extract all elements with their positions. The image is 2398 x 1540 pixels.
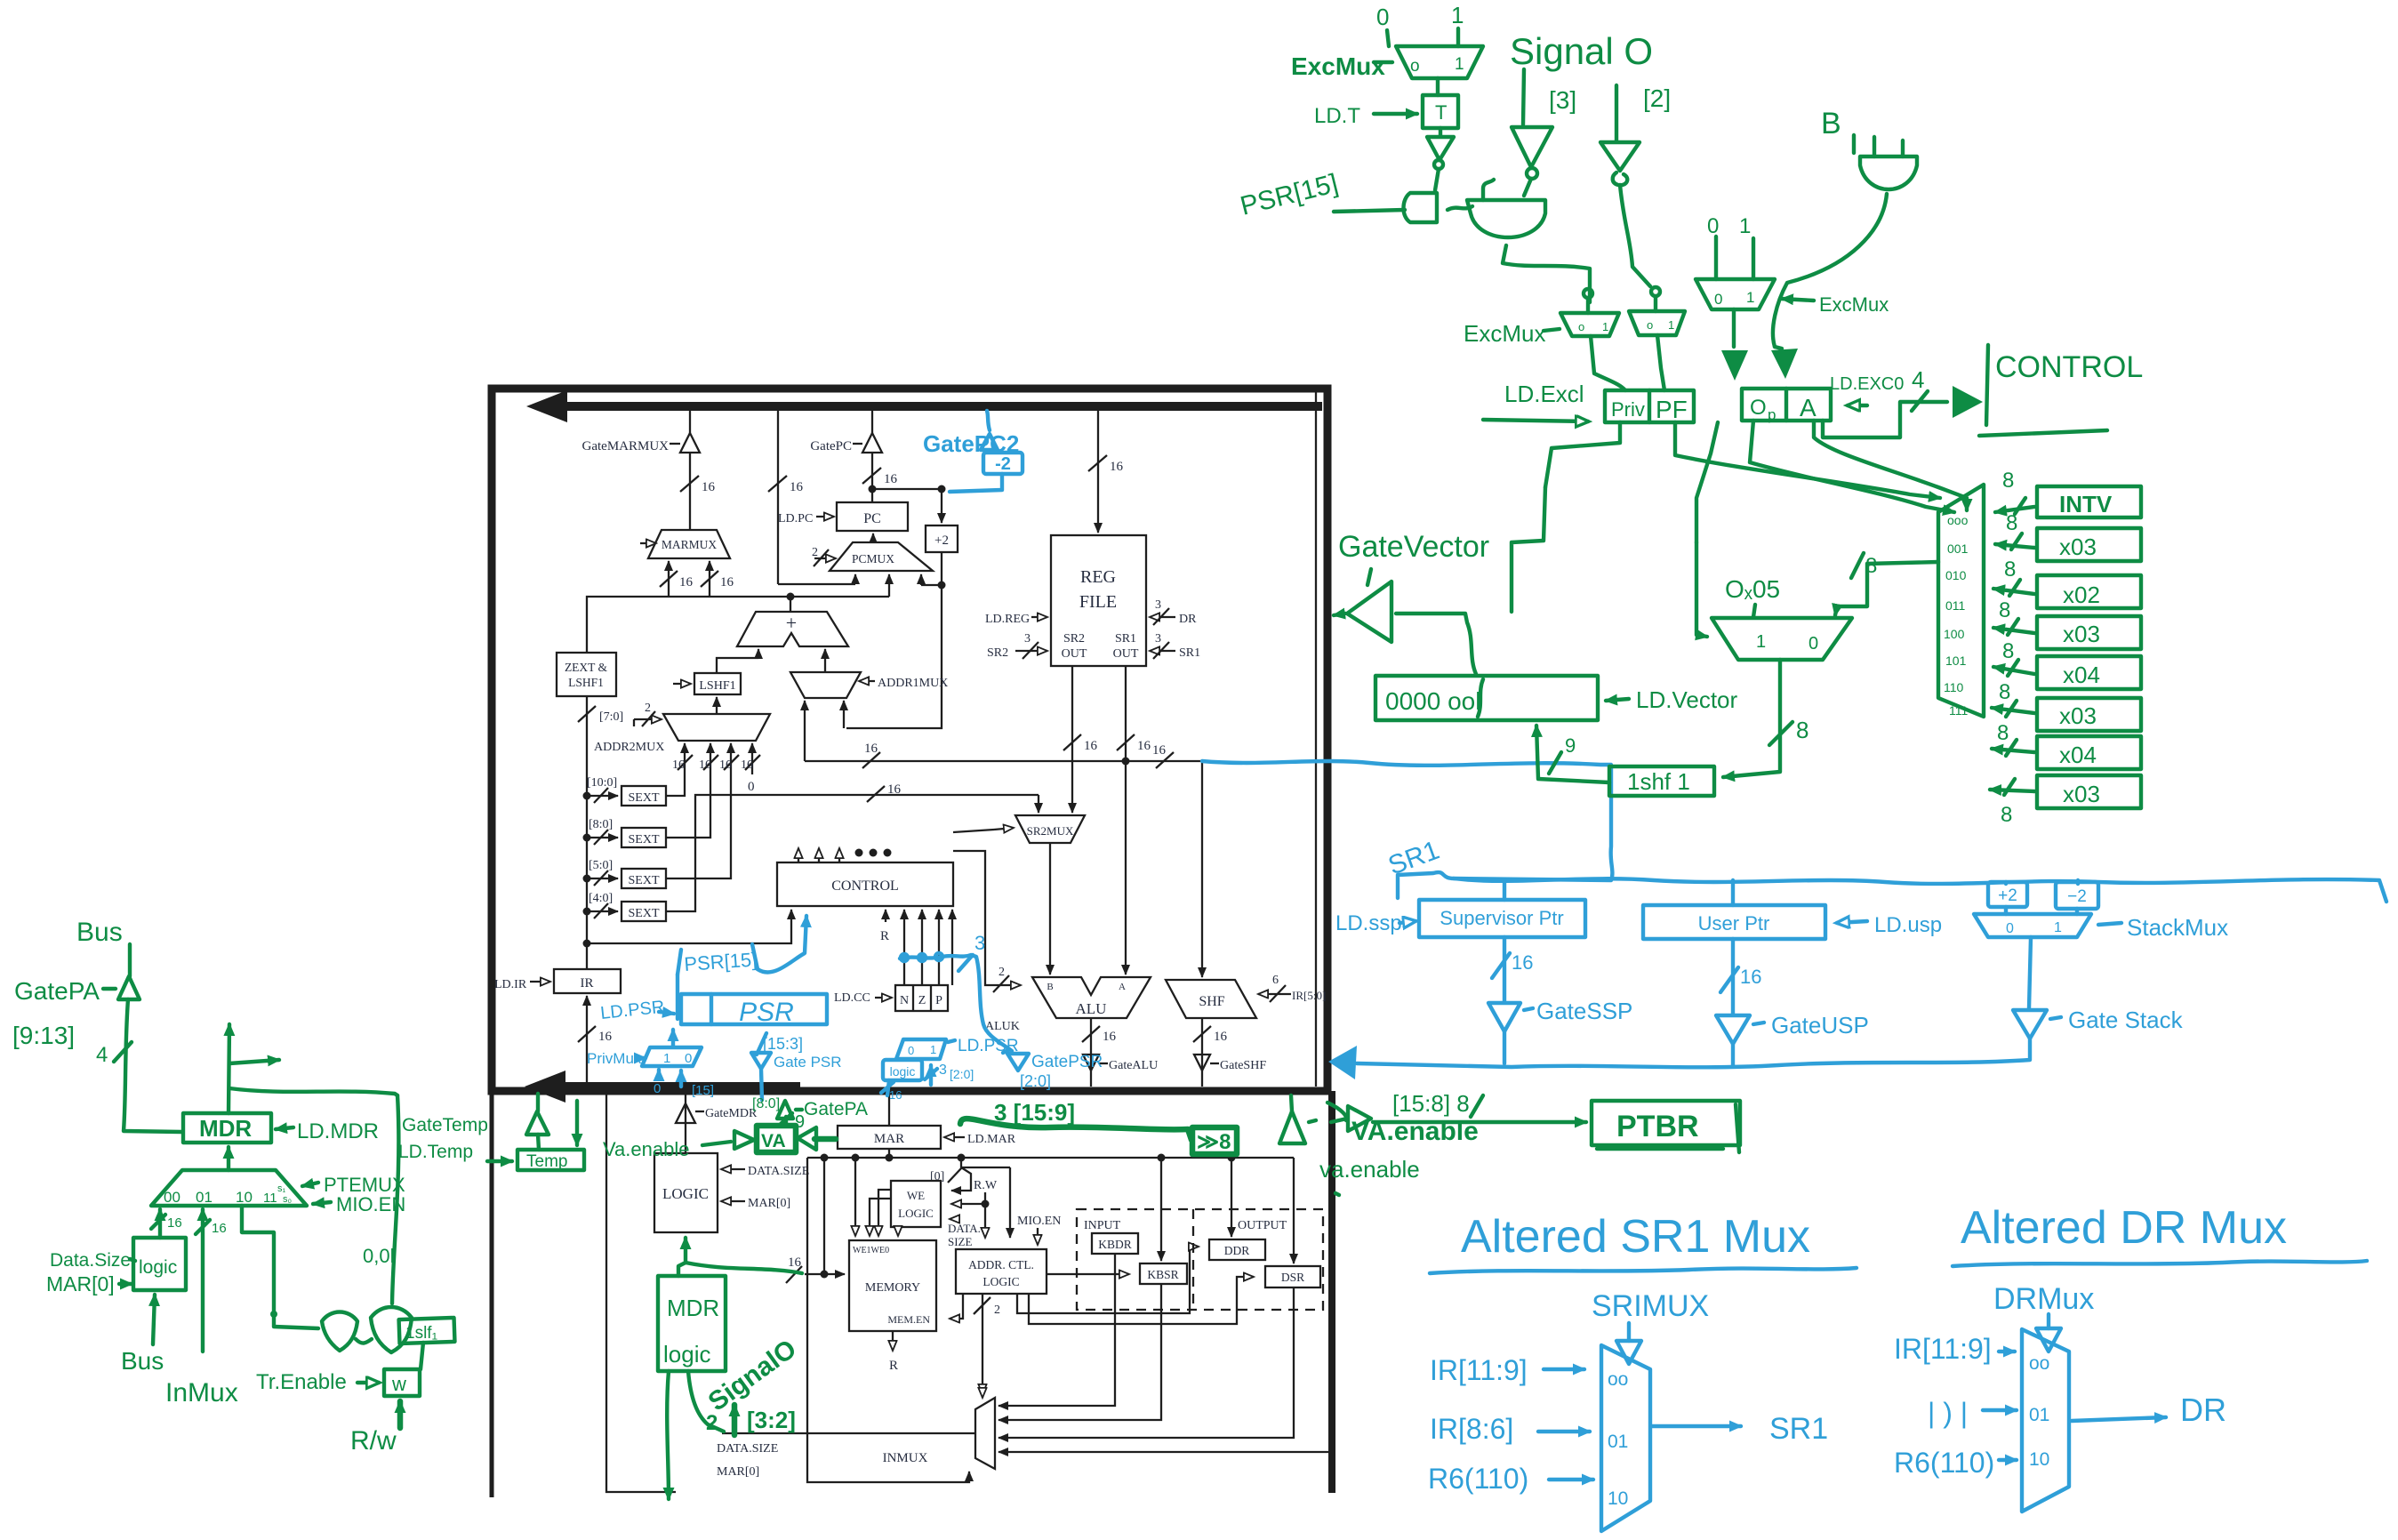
svg-text:6: 6 [1272, 974, 1279, 987]
wire MARMUX output up with 16 slash [689, 453, 691, 530]
svg-text:16: 16 [719, 758, 732, 772]
wire bus row to DSR [1293, 1158, 1295, 1263]
SHF [1166, 980, 1256, 1018]
INTV vector mux parallelogram [1938, 485, 1984, 717]
SHF right input 6 IR[5:0] [1258, 993, 1291, 995]
svg-text:LD.Vector: LD.Vector [1636, 686, 1738, 713]
svg-text:WE1WE0: WE1WE0 [853, 1246, 889, 1255]
wire +2 output to PCMUX and down to ADDR1MUX [941, 552, 942, 585]
svg-text:logic: logic [663, 1341, 710, 1368]
svg-text:0000 ool: 0000 ool [1385, 687, 1480, 715]
blue return bus to frame [1357, 1031, 2030, 1067]
svg-text:ExcMux: ExcMux [1464, 320, 1545, 347]
svg-text:LOGIC: LOGIC [662, 1185, 709, 1202]
svg-text:0: 0 [748, 780, 755, 794]
svg-text:WE: WE [907, 1189, 925, 1202]
svg-text:2: 2 [812, 546, 818, 559]
wire MDR up with branches [229, 1024, 229, 1113]
INPUT OUTPUT dashed boxes [1077, 1209, 1323, 1310]
svg-text:Data.Size: Data.Size [50, 1250, 131, 1271]
svg-text:3: 3 [939, 1063, 947, 1078]
wire -2 to PC junction [987, 411, 990, 430]
svg-text:GateUSP: GateUSP [1771, 1012, 1869, 1039]
svg-text:16: 16 [720, 575, 734, 590]
wire MAR output and row y1302 [888, 1149, 890, 1158]
LOGIC box [654, 1153, 718, 1232]
wire INMUX output left [722, 1432, 975, 1434]
wire KBDR to INMUX [998, 1254, 1115, 1406]
svg-text:Tr.Enable: Tr.Enable [256, 1370, 347, 1394]
svg-text:8: 8 [1865, 554, 1877, 578]
svg-text:CONTROL: CONTROL [831, 878, 899, 894]
svg-text:SIZE: SIZE [948, 1235, 973, 1248]
svg-text:MAR: MAR [874, 1132, 904, 1146]
>>8 box [1192, 1127, 1237, 1154]
svg-text:SR2: SR2 [987, 646, 1008, 660]
svg-text:1: 1 [1668, 318, 1674, 332]
svg-text:MEM.EN: MEM.EN [887, 1313, 930, 1326]
KBSR box [1140, 1263, 1187, 1284]
svg-text:00: 00 [164, 1189, 180, 1206]
svg-text:16: 16 [167, 1215, 182, 1231]
svg-text:REG: REG [1080, 567, 1116, 587]
svg-text:LSHF1: LSHF1 [568, 676, 604, 689]
wire ADDR to 2 INMUX [982, 1294, 983, 1394]
svg-text:ExcMux: ExcMux [1291, 52, 1385, 80]
svg-text:GateTemp: GateTemp [402, 1115, 488, 1135]
SR1 select input [1150, 650, 1175, 652]
svg-text:SEXT: SEXT [629, 907, 660, 920]
wire y671 tap up to PCMUX [888, 574, 890, 597]
wire ADDR to DDR [1017, 1247, 1199, 1313]
svg-text:16: 16 [741, 758, 753, 772]
svg-text:[8:0]: [8:0] [589, 818, 613, 831]
svg-text:1: 1 [1602, 320, 1608, 333]
svg-text:3: 3 [1024, 632, 1031, 646]
svg-text:[9:13]: [9:13] [12, 1022, 75, 1049]
mux 0 1 right [1696, 279, 1775, 309]
GateTemp gate triangle [536, 1094, 540, 1111]
svg-text:8: 8 [2002, 639, 2014, 663]
wire GatePC to bus [871, 411, 873, 433]
svg-text:1slf₁: 1slf₁ [405, 1324, 437, 1343]
LSHF1 box [694, 673, 741, 694]
wire SEXT4 to SR2MUX via y894 [666, 795, 1023, 911]
svg-text:INTV: INTV [2059, 491, 2113, 517]
inverter below T [1439, 128, 1442, 135]
wire BD AND to mux A input [1773, 194, 1887, 347]
svg-text:001: 001 [1947, 541, 1969, 556]
mux output up to MDR [227, 1147, 230, 1170]
svg-text:PCMUX: PCMUX [852, 552, 894, 565]
wire NZP blue 3 [900, 955, 1012, 1051]
svg-text:DRMux: DRMux [1993, 1282, 2094, 1316]
wire SR1 horizontal y856 [805, 760, 1202, 762]
wire 1shf1 down to W [421, 1343, 423, 1369]
svg-text:DSR: DSR [1281, 1271, 1304, 1284]
svg-text:GatePSR: GatePSR [1031, 1053, 1103, 1071]
LD.MDR label [276, 1127, 293, 1129]
-2 box stack [2056, 882, 2098, 909]
svg-text:LD.MDR: LD.MDR [297, 1119, 379, 1143]
svg-text:8: 8 [2004, 557, 2016, 582]
LD.PSR mux [896, 1039, 946, 1059]
wire drop to Supervisor Ptr [1503, 880, 1506, 900]
wire vector reg to GateVector [1396, 614, 1476, 674]
GateMDR gate and wire [685, 1091, 686, 1153]
svg-text:B: B [1821, 107, 1841, 140]
GateStack gate [2013, 1010, 2047, 1039]
node adder junction [787, 593, 795, 601]
wire USP down 16 [1731, 939, 1735, 1014]
thick arrows into Op A [1732, 309, 1736, 347]
VA.enable gate triangle [1291, 1095, 1292, 1111]
logic box [133, 1238, 186, 1290]
svg-text:Z: Z [918, 994, 926, 1007]
wires small muxes down to PrivPF [1591, 336, 1625, 390]
svg-text:ALUK: ALUK [985, 1020, 1020, 1033]
svg-text:[15:3]: [15:3] [763, 1035, 803, 1053]
svg-text:3: 3 [1155, 632, 1161, 646]
svg-text:10: 10 [1608, 1488, 1628, 1509]
svg-text:SEXT: SEXT [629, 791, 660, 805]
MEMORY box [849, 1240, 936, 1331]
svg-text:INMUX: INMUX [883, 1451, 928, 1465]
User Ptr register [1643, 905, 1825, 939]
svg-text:MDR: MDR [667, 1295, 719, 1321]
PrivMux inputs [657, 1070, 661, 1078]
svg-text:Bus: Bus [76, 918, 123, 947]
svg-text:0: 0 [1714, 291, 1722, 308]
wire to PTBR [1373, 1120, 1586, 1124]
svg-text:1: 1 [1746, 289, 1754, 306]
svg-text:01: 01 [196, 1189, 213, 1206]
svg-text:P: P [935, 994, 942, 1007]
svg-text:3: 3 [1155, 598, 1161, 612]
svg-text:MIO.EN: MIO.EN [336, 1193, 405, 1215]
svg-text:16: 16 [884, 472, 898, 486]
SEXT 4:0 [583, 908, 591, 916]
svg-text:Priv: Priv [1611, 398, 1645, 421]
svg-text:x03: x03 [2063, 781, 2100, 807]
PCMUX output to PC [872, 533, 874, 542]
svg-text:T: T [1435, 101, 1447, 124]
OR gate right [371, 1307, 412, 1352]
svg-text:4: 4 [96, 1043, 108, 1067]
PTBR register [1592, 1101, 1740, 1145]
3 [2:0] label [929, 1065, 933, 1085]
svg-text:16: 16 [212, 1221, 227, 1236]
svg-text:[3]: [3] [1549, 86, 1576, 114]
svg-text:0: 0 [1809, 634, 1818, 654]
wire y856 up into ADDR1MUX [804, 701, 806, 761]
PrivMux mux [642, 1047, 702, 1066]
svg-text:R/w: R/w [350, 1426, 397, 1456]
wire MAR into MEMORY top [854, 1158, 856, 1236]
blue bus horizontal to stack units [1454, 878, 2386, 902]
svg-text:logic: logic [890, 1064, 916, 1079]
svg-text:DATA.SIZE: DATA.SIZE [717, 1442, 778, 1456]
svg-text:LD.CC: LD.CC [834, 991, 870, 1005]
NZP to CONTROL wires [903, 910, 905, 985]
svg-text:x04: x04 [2063, 662, 2100, 688]
logic box blue [883, 1060, 922, 1080]
svg-text:8: 8 [1999, 680, 2010, 704]
svg-text:+: + [786, 612, 797, 634]
svg-text:VA: VA [761, 1131, 786, 1151]
REG FILE [1051, 535, 1146, 666]
wire SSP down 16 [1503, 937, 1506, 1001]
svg-text:| ) |: | ) | [1928, 1397, 1968, 1429]
svg-text:IR[8:6]: IR[8:6] [1430, 1413, 1513, 1445]
KBDR box [1092, 1233, 1138, 1254]
svg-text:IR: IR [581, 976, 594, 991]
+2 box stack [1988, 882, 2027, 907]
svg-text:10: 10 [236, 1189, 253, 1206]
GateSSP gate [1488, 1003, 1520, 1031]
svg-text:IR[11:9]: IR[11:9] [1430, 1354, 1528, 1386]
-2 box [983, 453, 1023, 474]
svg-text:-2: -2 [995, 454, 1011, 474]
OR gate left [322, 1312, 357, 1352]
svg-text:SHF: SHF [1199, 994, 1224, 1009]
svg-text:10: 10 [2029, 1449, 2049, 1470]
svg-text:GateALU: GateALU [1109, 1059, 1158, 1072]
GatePSR gate triangle [751, 1053, 771, 1069]
CONTROL top arrows [798, 848, 799, 862]
svg-text:[3:2]: [3:2] [747, 1407, 796, 1433]
wire SHF output to bus with 16 slash [1201, 1018, 1203, 1087]
bus: top thick bus bar [551, 402, 1322, 411]
wire INTV mux output to 0x05 mux [1835, 562, 1938, 615]
GateALU gate [1083, 1055, 1099, 1071]
wire KBSR to INMUX [998, 1284, 1161, 1420]
wire GateMARMUX to bus [689, 411, 691, 433]
ZEXT & LSHF1 box [557, 653, 616, 696]
DATA.SIZE input [721, 1168, 745, 1170]
svg-text:16: 16 [598, 1030, 613, 1044]
MAR register [838, 1126, 941, 1149]
svg-text:SEXT: SEXT [629, 874, 660, 887]
svg-text:VA.enable: VA.enable [1351, 1117, 1479, 1146]
wire LSHF1 output to adder [717, 658, 758, 673]
StackMux [1974, 914, 2091, 937]
svg-text:Altered SR1 Mux: Altered SR1 Mux [1461, 1211, 1810, 1263]
svg-text:16: 16 [672, 758, 685, 772]
svg-text:O: O [1750, 396, 1767, 420]
LD.usp label [1837, 921, 1867, 923]
svg-text:[5:0]: [5:0] [589, 859, 613, 872]
wire Op A to CONTROL 4 [1823, 402, 1947, 437]
wire ADDR2MUX output to LSHF1 [716, 697, 718, 714]
svg-text:ADDR. CTL.: ADDR. CTL. [968, 1258, 1034, 1271]
PTEMUX MIO.EN labels [302, 1183, 318, 1186]
small mux A [1560, 313, 1619, 336]
svg-text:R: R [889, 1359, 898, 1373]
svg-text:LD.IR: LD.IR [494, 978, 527, 991]
svg-text:MARMUX: MARMUX [662, 538, 718, 551]
svg-text:INPUT: INPUT [1084, 1219, 1121, 1232]
bus: top bus left arrowhead [526, 390, 567, 422]
svg-text:DATA.SIZE: DATA.SIZE [748, 1165, 809, 1178]
GateUSP gate [1716, 1015, 1750, 1044]
svg-text:≫8: ≫8 [1197, 1130, 1231, 1154]
svg-text:16: 16 [887, 782, 902, 797]
wire frame to VA.enable region [1327, 1103, 1346, 1120]
svg-text:InMux: InMux [165, 1378, 238, 1408]
ALU [1032, 977, 1151, 1018]
LD.Vector label [1606, 699, 1629, 701]
svg-text:01: 01 [2029, 1405, 2049, 1425]
svg-text:[15:8] 8: [15:8] 8 [1392, 1090, 1470, 1117]
0x05 mux [1712, 618, 1852, 660]
svg-text:16: 16 [1512, 951, 1533, 974]
wire extra INMUX input [998, 1451, 1332, 1453]
svg-text:[7:0]: [7:0] [599, 710, 623, 724]
svg-text:16: 16 [1084, 739, 1098, 753]
svg-text:KBSR: KBSR [1147, 1268, 1178, 1281]
svg-text:1: 1 [663, 1051, 670, 1066]
svg-text:1: 1 [1451, 2, 1464, 28]
svg-text:3 [15:9]: 3 [15:9] [994, 1099, 1075, 1126]
wires PrivPF outputs down-left [1545, 422, 1620, 487]
wire logic to mux 16 [158, 1209, 162, 1238]
svg-text:3: 3 [974, 932, 985, 954]
svg-text:MAR[0]: MAR[0] [46, 1272, 115, 1295]
wire CONTROL to ALUK [953, 851, 1021, 985]
wire drops to +2 -2 [2006, 880, 2078, 884]
svg-text:011: 011 [1945, 598, 1966, 613]
svg-text:Signal O: Signal O [1510, 30, 1653, 72]
svg-text:8: 8 [1999, 598, 2010, 622]
svg-text:LD.EXC0: LD.EXC0 [1830, 374, 1904, 394]
svg-text:oo: oo [2029, 1353, 2049, 1374]
WE LOGIC outputs into MEMORY [878, 1190, 891, 1236]
svg-text:0: 0 [654, 1081, 661, 1096]
GateMARMUX gate triangle [670, 443, 680, 445]
svg-text:Bus: Bus [121, 1347, 164, 1375]
bus: bottom thick bus arrowhead [525, 1071, 565, 1103]
svg-text:OUTPUT: OUTPUT [1238, 1219, 1287, 1232]
svg-text:16: 16 [699, 758, 711, 772]
svg-text:LD.MAR: LD.MAR [967, 1133, 1016, 1146]
svg-text:IR[5:0]: IR[5:0] [1292, 989, 1326, 1002]
svg-text:LD.Excl: LD.Excl [1504, 381, 1584, 407]
MARMUX [648, 530, 730, 558]
W box [384, 1369, 420, 1396]
svg-text:16: 16 [864, 742, 878, 756]
svg-text:[4:0]: [4:0] [589, 892, 613, 905]
wire PSR15 to CONTROL [678, 916, 806, 1019]
svg-text:KBDR: KBDR [1098, 1238, 1132, 1251]
wire MDR logic up to LOGIC [678, 1238, 686, 1276]
svg-text:MDR: MDR [199, 1115, 252, 1142]
PTBR feed triangle [1331, 1119, 1347, 1122]
svg-text:s₁: s₁ [277, 1183, 286, 1194]
svg-text:8: 8 [2002, 469, 2014, 493]
frame left edge extension below [490, 1091, 494, 1497]
blue arrowhead into frame [1328, 1046, 1357, 1079]
wire StackMux down [2029, 937, 2031, 1008]
ADDR2MUX [663, 714, 770, 741]
svg-text:va.enable: va.enable [1319, 1156, 1420, 1183]
svg-text:16: 16 [1152, 743, 1167, 758]
wire 0x05 mux output down [1723, 660, 1780, 777]
svg-text:2: 2 [994, 1303, 1000, 1317]
svg-text:16: 16 [1110, 460, 1124, 474]
svg-text:LD.Temp: LD.Temp [398, 1142, 473, 1162]
SR1 mux output [1652, 1424, 1741, 1428]
wire PC output up with 16 slash [871, 453, 873, 502]
svg-text:Oₓ05: Oₓ05 [1725, 575, 1780, 603]
svg-text:MAR[0]: MAR[0] [748, 1197, 790, 1210]
svg-text:0: 0 [1707, 214, 1719, 238]
svg-text:SR1: SR1 [1115, 632, 1136, 646]
wire drop to User Ptr [1731, 880, 1735, 905]
svg-text:0: 0 [908, 1044, 914, 1057]
svg-text:−2: −2 [2067, 887, 2087, 906]
svg-text:x04: x04 [2059, 742, 2097, 768]
svg-text:User Ptr: User Ptr [1698, 912, 1770, 934]
wire ADDR to KBSR [1047, 1273, 1129, 1275]
svg-text:1: 1 [930, 1043, 936, 1056]
INTV arrows into mux [1995, 507, 2034, 512]
svg-text:2: 2 [645, 702, 651, 715]
wire MAR[0] tap to WE LOGIC [958, 1154, 966, 1162]
svg-text:oo: oo [1608, 1369, 1628, 1390]
[7:0] slash label [578, 706, 596, 722]
svg-text:0: 0 [685, 1051, 692, 1066]
svg-text:16: 16 [790, 480, 804, 494]
lshf 1 box [1609, 766, 1714, 796]
svg-text:16: 16 [1137, 739, 1151, 753]
svg-text:R.W: R.W [974, 1179, 998, 1192]
DSR box [1265, 1266, 1320, 1287]
svg-text:1: 1 [1455, 55, 1464, 74]
svg-text:PTBR: PTBR [1616, 1110, 1699, 1143]
svg-text:LD.REG: LD.REG [985, 613, 1030, 626]
Priv PF register [1605, 390, 1694, 422]
wire ALU output to bus with 16 slash [1090, 1018, 1092, 1087]
node PC top junction [869, 485, 877, 493]
svg-text:MEMORY: MEMORY [865, 1281, 920, 1295]
wire bus row to DDR [1231, 1158, 1232, 1237]
svg-text:0: 0 [2006, 921, 2014, 936]
svg-text:ADDR2MUX: ADDR2MUX [594, 741, 664, 754]
svg-text:8: 8 [1796, 717, 1809, 743]
svg-text:110: 110 [1944, 680, 1964, 694]
Temp register [517, 1150, 584, 1170]
CONTROL label green [1986, 345, 1988, 425]
LD.MAR input [944, 1136, 965, 1138]
svg-text:11: 11 [263, 1191, 277, 1206]
svg-text:s₀: s₀ [283, 1194, 292, 1205]
wire adder-out horizontal y671 [587, 597, 889, 653]
wire mux1011 to left OR [274, 1314, 318, 1328]
svg-text:DR: DR [1179, 613, 1197, 626]
svg-text:4: 4 [1912, 366, 1924, 393]
ADDR1MUX [790, 672, 861, 698]
wire bus to REG FILE with 16 slash [1097, 411, 1099, 533]
wire AND out down to small muxes [1503, 245, 1590, 302]
svg-text:SR1: SR1 [1179, 646, 1200, 660]
svg-text:+2: +2 [934, 533, 949, 548]
svg-text:o: o [1410, 57, 1420, 76]
AND gate small [1404, 193, 1438, 222]
svg-text:0,0l: 0,0l [363, 1245, 394, 1267]
adder [737, 612, 848, 646]
GatePC gate triangle [853, 443, 862, 445]
